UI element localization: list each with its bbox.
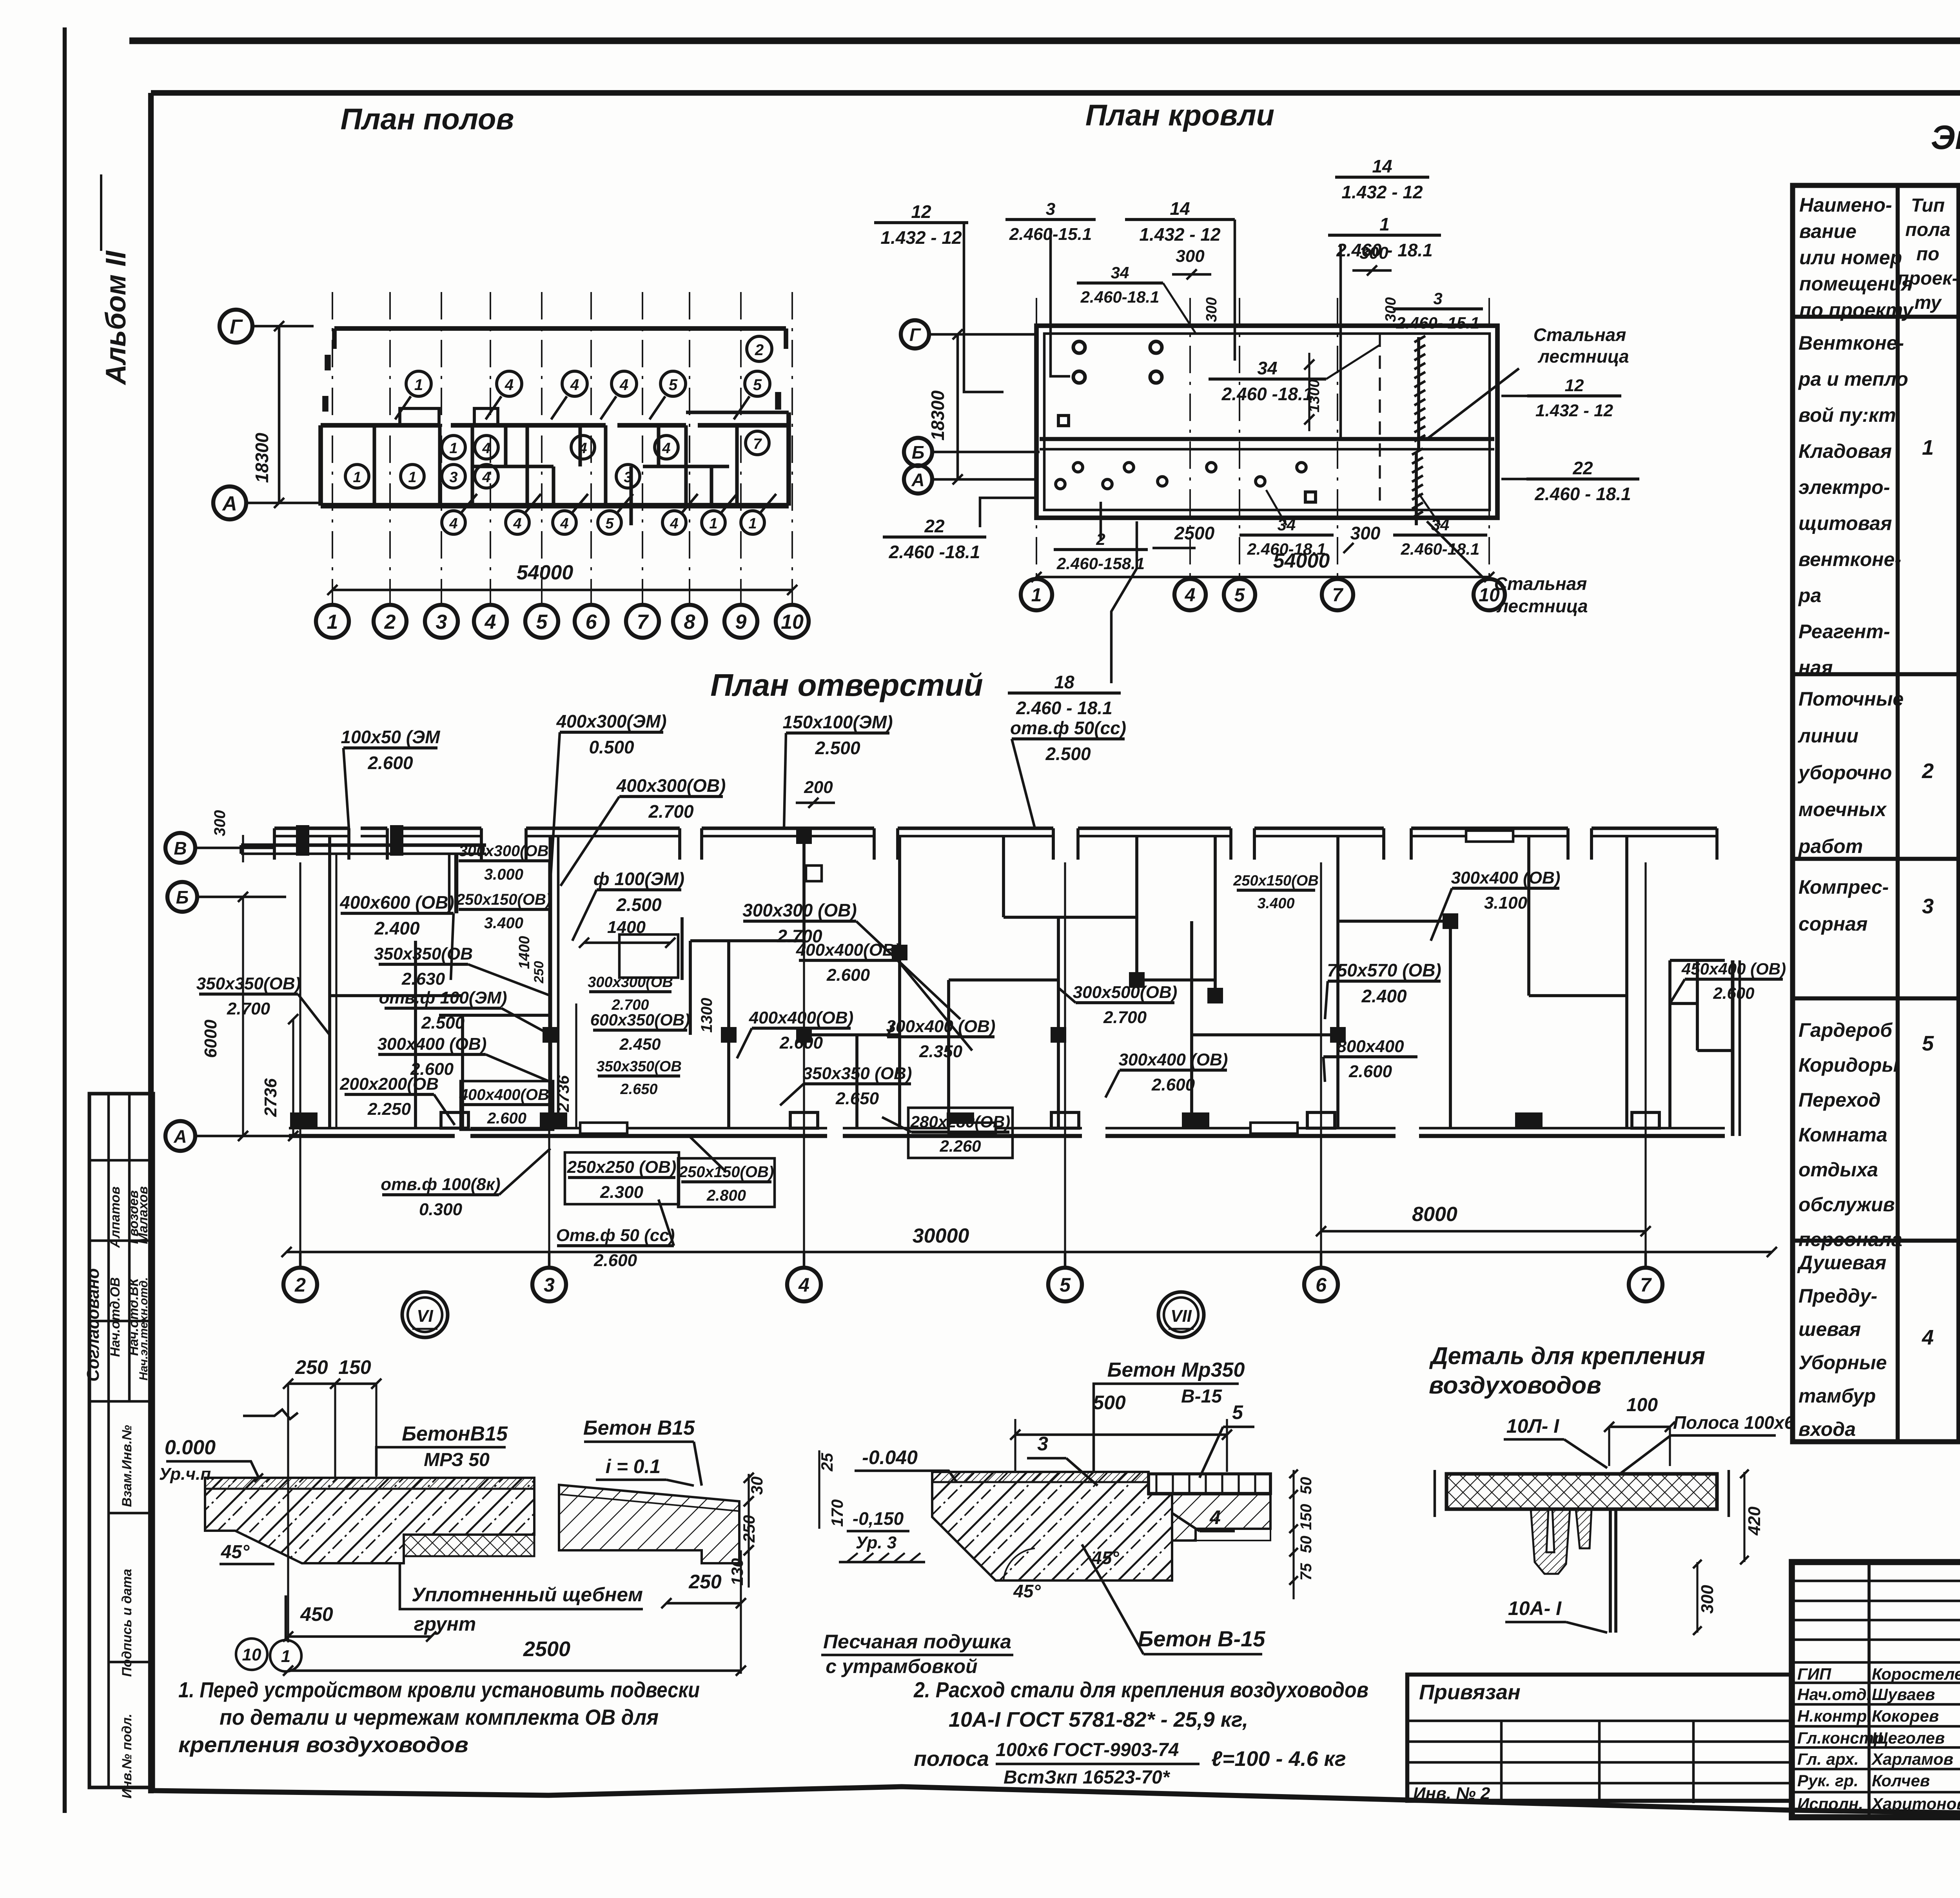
svg-text:отв.ф 50(сс): отв.ф 50(сс) <box>1010 718 1126 738</box>
plan polov band side walls <box>318 425 323 506</box>
svg-text:250: 250 <box>688 1571 722 1593</box>
svg-text:2.630: 2.630 <box>401 969 445 989</box>
svg-text:Нач.эл.техн.отд.: Нач.эл.техн.отд. <box>137 1277 150 1381</box>
svg-text:0.000: 0.000 <box>165 1436 216 1459</box>
plan left porch wall <box>241 843 486 847</box>
detailVII right slab <box>1172 1494 1270 1541</box>
svg-text:200: 200 <box>804 778 833 797</box>
svg-text:400х600 (ОВ): 400х600 (ОВ) <box>339 892 454 913</box>
svg-text:Уборные: Уборные <box>1798 1352 1887 1374</box>
drawing frame left border <box>148 93 154 1793</box>
detail10 gravel zone <box>404 1535 534 1556</box>
svg-text:Кокорев: Кокорев <box>1872 1707 1939 1725</box>
svg-text:300х500(ОВ): 300х500(ОВ) <box>1073 983 1178 1002</box>
svg-text:Исполн.: Исполн. <box>1797 1795 1863 1813</box>
roof axis circle B <box>904 438 932 466</box>
svg-text:ра и тепло: ра и тепло <box>1798 368 1908 390</box>
svg-text:1: 1 <box>408 469 416 486</box>
svg-text:Г: Г <box>230 316 243 338</box>
svg-text:Б: Б <box>176 887 189 907</box>
svg-text:1: 1 <box>414 376 423 394</box>
svg-text:22: 22 <box>1572 458 1593 478</box>
svg-text:450х400 (ОВ): 450х400 (ОВ) <box>1681 960 1786 978</box>
svg-text:2.450: 2.450 <box>619 1035 661 1053</box>
plan polov partitions <box>372 425 376 506</box>
svg-text:300х400 (ОВ): 300х400 (ОВ) <box>1451 868 1561 887</box>
detailVII top thin layer <box>932 1472 1149 1482</box>
svg-text:Шуваев: Шуваев <box>1872 1685 1935 1704</box>
svg-text:Экспликация полов: Экспликация полов <box>1931 119 1960 156</box>
svg-text:300: 300 <box>1698 1585 1717 1614</box>
plan top wall segments <box>274 826 349 830</box>
svg-text:щитовая: щитовая <box>1798 512 1892 534</box>
svg-text:2.460-18.1: 2.460-18.1 <box>1401 540 1480 558</box>
svg-text:5: 5 <box>536 611 548 633</box>
roof grid dash-dot lines <box>1036 298 1037 576</box>
svg-text:250х250 (ОВ): 250х250 (ОВ) <box>567 1158 677 1177</box>
duct detail dim 300 <box>1696 1562 1698 1633</box>
svg-text:2.460 - 18.1: 2.460 - 18.1 <box>1534 484 1631 504</box>
svg-text:3: 3 <box>1922 895 1934 918</box>
svg-text:Бетон В15: Бетон В15 <box>583 1417 695 1439</box>
svg-text:3: 3 <box>449 469 457 486</box>
svg-text:2.460-158.1: 2.460-158.1 <box>1056 554 1145 573</box>
svg-text:22: 22 <box>924 516 945 536</box>
svg-text:7: 7 <box>1640 1274 1652 1296</box>
svg-text:2.500: 2.500 <box>815 738 860 758</box>
roof axis circle G <box>901 320 929 348</box>
plan right end rooms <box>1731 960 1734 1136</box>
svg-text:Г: Г <box>909 325 921 345</box>
svg-text:14: 14 <box>1170 198 1190 219</box>
svg-text:4: 4 <box>578 440 587 457</box>
drawing frame bottom border <box>151 1787 1960 1824</box>
svg-text:ту: ту <box>1915 292 1942 313</box>
svg-text:Уплотненный щебнем: Уплотненный щебнем <box>412 1584 643 1606</box>
svg-text:200х200(ОВ: 200х200(ОВ <box>339 1074 439 1094</box>
svg-text:6: 6 <box>1316 1274 1327 1296</box>
svg-text:800х400: 800х400 <box>1337 1037 1404 1056</box>
svg-text:План кровли: План кровли <box>1085 99 1274 132</box>
svg-text:54000: 54000 <box>517 561 573 584</box>
svg-text:0.500: 0.500 <box>589 737 634 757</box>
svg-text:300х300 (ОВ): 300х300 (ОВ) <box>742 900 857 920</box>
roof axis circle A <box>904 465 932 494</box>
explication table outer box <box>1793 185 1960 1442</box>
svg-text:уборочно: уборочно <box>1797 762 1892 784</box>
detail10 node circles 10 and 1 <box>236 1639 267 1670</box>
svg-text:2: 2 <box>384 611 396 633</box>
svg-text:250х150(ОВ: 250х150(ОВ <box>1233 873 1319 889</box>
svg-text:с утрамбовкой: с утрамбовкой <box>826 1655 977 1677</box>
svg-text:А: А <box>221 492 237 515</box>
svg-text:2.460 - 18.1: 2.460 - 18.1 <box>1016 698 1112 718</box>
svg-text:Нач.отд.: Нач.отд. <box>1797 1685 1871 1704</box>
plan otverstiy axis circle V <box>165 833 195 863</box>
plan polov axis circle G <box>220 310 252 343</box>
svg-text:30: 30 <box>748 1477 766 1495</box>
svg-text:2. Расход стали для крепл: 2. Расход стали для крепления воздуховод… <box>913 1677 1368 1702</box>
plan otverstiy axis circle B <box>167 882 197 912</box>
plan bottom wall segments <box>289 1127 455 1130</box>
svg-text:18300: 18300 <box>927 390 948 441</box>
duct detail hangers <box>1531 1509 1570 1574</box>
svg-text:4: 4 <box>482 469 490 486</box>
plan duct shaft wall <box>454 854 458 913</box>
svg-text:1.432 - 12: 1.432 - 12 <box>880 227 962 248</box>
svg-text:2.460- 15.1: 2.460- 15.1 <box>1396 314 1480 332</box>
svg-text:Колчев: Колчев <box>1872 1771 1930 1790</box>
plan polov vertical dim 18300 <box>278 326 281 503</box>
plan polov band upper wall <box>321 423 439 428</box>
svg-text:2: 2 <box>755 341 764 359</box>
svg-text:10А-I ГОСТ 5781-82* - 25,9 к: 10А-I ГОСТ 5781-82* - 25,9 кг, <box>949 1708 1248 1731</box>
svg-text:Гл.констр: Гл.констр <box>1797 1729 1884 1747</box>
svg-text:вентконе-: вентконе- <box>1798 548 1901 570</box>
callout 280x280 <box>908 1108 1013 1158</box>
plan polov room number circles above band <box>406 371 431 396</box>
privyazan table box <box>1407 1675 1792 1801</box>
svg-text:2.400: 2.400 <box>374 918 420 938</box>
svg-text:ВстЗкп 16523-70*: ВстЗкп 16523-70* <box>1004 1767 1171 1788</box>
svg-text:300х400 (ОВ): 300х400 (ОВ) <box>377 1034 487 1054</box>
privyazan grid <box>1407 1720 1792 1722</box>
svg-text:5: 5 <box>1922 1032 1934 1055</box>
svg-text:1: 1 <box>1031 585 1042 606</box>
svg-text:1300: 1300 <box>698 998 715 1033</box>
svg-text:отв.ф 100(ЭМ): отв.ф 100(ЭМ) <box>379 988 507 1007</box>
plan polov grid axis dash-dot lines <box>332 292 333 605</box>
svg-text:План отверстий: План отверстий <box>710 668 983 702</box>
svg-text:Стальная: Стальная <box>1534 325 1626 345</box>
svg-text:7: 7 <box>637 611 649 633</box>
svg-text:Альбом II: Альбом II <box>100 250 132 385</box>
svg-text:18300: 18300 <box>252 433 272 483</box>
svg-text:отв.ф 100(8к): отв.ф 100(8к) <box>381 1175 500 1194</box>
detail10 break squiggle <box>243 1410 298 1419</box>
plan polov room number circles below band <box>442 511 465 534</box>
svg-text:300: 300 <box>1350 523 1381 543</box>
svg-text:или номер: или номер <box>1799 247 1902 269</box>
svg-text:2.500: 2.500 <box>616 895 662 915</box>
svg-text:Отв.ф 50 (сс): Отв.ф 50 (сс) <box>556 1226 675 1245</box>
svg-text:30000: 30000 <box>913 1225 969 1247</box>
svg-text:Душевая: Душевая <box>1797 1252 1886 1274</box>
svg-text:45°: 45° <box>1091 1548 1119 1568</box>
plan door openings ticks <box>580 1123 627 1134</box>
svg-text:1400: 1400 <box>516 936 533 969</box>
svg-text:300: 300 <box>211 810 229 836</box>
svg-text:Бетон В-15: Бетон В-15 <box>1138 1626 1266 1651</box>
svg-text:4: 4 <box>1922 1326 1934 1349</box>
svg-text:34: 34 <box>1111 263 1129 282</box>
svg-text:18: 18 <box>1054 672 1074 692</box>
svg-text:тамбур: тамбур <box>1798 1385 1876 1407</box>
svg-text:150: 150 <box>338 1356 371 1378</box>
roof outline inner <box>1044 334 1490 510</box>
svg-text:100х6 ГОСТ-9903-74: 100х6 ГОСТ-9903-74 <box>996 1740 1179 1760</box>
roof axis leaders <box>929 333 1036 336</box>
svg-text:2.600: 2.600 <box>826 965 870 985</box>
plan otverstiy axis circle A <box>165 1121 195 1151</box>
svg-text:250х150(ОВ): 250х150(ОВ) <box>456 891 551 908</box>
svg-text:-0,150: -0,150 <box>853 1508 904 1529</box>
svg-text:Рук. гр.: Рук. гр. <box>1797 1771 1858 1790</box>
svg-text:300: 300 <box>1359 243 1388 263</box>
approval strip box <box>89 1094 153 1787</box>
svg-text:Тип: Тип <box>1911 195 1945 216</box>
title block top thin rows <box>1792 1580 1960 1582</box>
detailVII bottom hatch band <box>1196 1529 1270 1541</box>
svg-text:Н.контр.: Н.контр. <box>1797 1707 1871 1725</box>
svg-text:3.100: 3.100 <box>1484 893 1528 913</box>
svg-text:Песчаная подушка: Песчаная подушка <box>823 1631 1011 1653</box>
title block name rows <box>1792 1682 1960 1684</box>
svg-text:моечных: моечных <box>1798 798 1887 820</box>
svg-text:персонала: персонала <box>1798 1228 1902 1250</box>
approval strip row lines <box>89 1159 153 1162</box>
explication table row lines <box>1793 315 1960 319</box>
svg-text:300: 300 <box>1203 297 1220 322</box>
svg-text:4: 4 <box>513 515 521 532</box>
svg-text:2.500: 2.500 <box>421 1013 465 1032</box>
svg-text:Деталь для крепления: Деталь для крепления <box>1429 1343 1705 1370</box>
svg-text:1: 1 <box>1379 214 1390 234</box>
svg-text:2.600: 2.600 <box>487 1110 526 1127</box>
svg-text:50: 50 <box>1298 1477 1315 1495</box>
svg-text:3: 3 <box>1433 289 1442 308</box>
svg-text:VI: VI <box>417 1306 433 1326</box>
svg-text:5: 5 <box>669 376 678 394</box>
callout 250x150 2.800 <box>678 1158 775 1207</box>
plan interior column squares <box>543 1027 558 1043</box>
plan polov band lower wall <box>321 503 789 508</box>
svg-text:9: 9 <box>735 611 747 633</box>
svg-text:2.700: 2.700 <box>227 999 270 1018</box>
svg-text:VII: VII <box>1171 1306 1192 1326</box>
svg-text:2.650: 2.650 <box>620 1081 657 1098</box>
svg-text:2.600: 2.600 <box>367 753 413 773</box>
svg-text:2.260: 2.260 <box>939 1137 981 1155</box>
svg-text:2.250: 2.250 <box>367 1100 411 1119</box>
explication table column lines <box>1896 185 1900 1442</box>
svg-text:входа: входа <box>1798 1418 1856 1440</box>
roof middle double wall <box>1040 437 1494 441</box>
svg-text:420: 420 <box>1745 1506 1764 1536</box>
svg-text:Нач.отд.ОВ: Нач.отд.ОВ <box>108 1277 123 1357</box>
svg-text:2736: 2736 <box>554 1075 572 1112</box>
svg-text:3: 3 <box>1037 1433 1048 1455</box>
svg-text:4: 4 <box>505 376 514 394</box>
node circle VI <box>402 1292 448 1337</box>
svg-text:350х350(ОВ: 350х350(ОВ <box>374 944 473 964</box>
svg-text:БетонВ15: БетонВ15 <box>402 1423 508 1445</box>
svg-text:Полоса 100х6: Полоса 100х6 <box>1673 1412 1795 1433</box>
svg-text:Гардероб: Гардероб <box>1798 1019 1893 1041</box>
plan polov top wall <box>334 326 786 331</box>
svg-text:пола: пола <box>1905 220 1950 240</box>
svg-text:вание: вание <box>1799 220 1857 242</box>
plan polov axis circle A <box>213 486 246 519</box>
svg-text:Стальная: Стальная <box>1494 573 1587 594</box>
svg-text:Привязан: Привязан <box>1419 1680 1521 1704</box>
svg-text:10А- I: 10А- I <box>1508 1597 1562 1619</box>
roof dashed partition <box>1379 334 1381 510</box>
svg-text:ная: ная <box>1798 657 1833 679</box>
svg-text:6000: 6000 <box>201 1020 220 1058</box>
svg-text:3.400: 3.400 <box>1257 895 1294 912</box>
detail10 slab top layer <box>205 1478 534 1489</box>
svg-text:Харламов: Харламов <box>1871 1750 1953 1768</box>
svg-text:2500: 2500 <box>1174 523 1215 543</box>
svg-text:Коридоры: Коридоры <box>1798 1054 1898 1076</box>
svg-text:ℓ=100 - 4.6 кг: ℓ=100 - 4.6 кг <box>1211 1747 1346 1771</box>
svg-text:2.350: 2.350 <box>919 1042 963 1061</box>
detailVII tile strip <box>1149 1474 1270 1493</box>
svg-text:4: 4 <box>449 515 457 532</box>
svg-text:25: 25 <box>818 1453 836 1472</box>
svg-text:250: 250 <box>295 1356 328 1378</box>
svg-text:3: 3 <box>1046 200 1055 219</box>
svg-text:помещения: помещения <box>1799 273 1913 295</box>
svg-text:4: 4 <box>1185 585 1196 606</box>
svg-text:350х350(ОВ: 350х350(ОВ <box>596 1058 682 1075</box>
svg-text:750х570 (ОВ): 750х570 (ОВ) <box>1327 960 1441 980</box>
svg-text:300х300(ОВ: 300х300(ОВ <box>459 842 548 860</box>
svg-text:2500: 2500 <box>523 1637 570 1661</box>
paper top edge <box>129 38 1960 44</box>
svg-text:Реагент-: Реагент- <box>1798 621 1890 642</box>
svg-text:3: 3 <box>624 469 632 486</box>
detail10 slab right polygon <box>559 1485 739 1563</box>
plan otverstiy axis leaders <box>195 847 274 849</box>
svg-text:Коростелев: Коростелев <box>1872 1665 1960 1683</box>
svg-text:1: 1 <box>709 515 717 532</box>
svg-text:4: 4 <box>670 515 678 532</box>
svg-text:ра: ра <box>1798 584 1821 606</box>
svg-text:В: В <box>174 838 187 858</box>
plan duct rectangle 1400 <box>619 934 678 978</box>
svg-text:400х300(ЭМ): 400х300(ЭМ) <box>556 711 666 731</box>
svg-text:100: 100 <box>1626 1395 1658 1415</box>
plan grid thin vertical lines <box>299 862 301 1266</box>
svg-text:5: 5 <box>1060 1274 1071 1296</box>
callout 400x400 boxed <box>461 1081 553 1130</box>
svg-text:45°: 45° <box>1013 1581 1041 1601</box>
svg-text:100х50 (ЭМ: 100х50 (ЭМ <box>341 727 441 747</box>
svg-text:лестница: лестница <box>1496 596 1588 616</box>
detail10 slab left polygon <box>205 1478 534 1563</box>
svg-text:2.500: 2.500 <box>1045 744 1091 764</box>
svg-text:крепления воздуховодов: крепления воздуховодов <box>178 1732 468 1757</box>
plan polov inner wall shelf <box>472 465 554 468</box>
svg-text:1. Перед устройством кровли: 1. Перед устройством кровли установить п… <box>178 1677 700 1702</box>
roof small squares <box>1305 492 1316 502</box>
plan polov room number circles inside band <box>442 435 465 459</box>
svg-text:400х400(ОВ): 400х400(ОВ) <box>749 1008 854 1027</box>
svg-text:8000: 8000 <box>1412 1203 1457 1226</box>
roof ladder hatch strips <box>1414 336 1425 342</box>
svg-text:2.800: 2.800 <box>706 1187 746 1204</box>
svg-text:3.400: 3.400 <box>484 915 523 932</box>
svg-text:А: А <box>911 470 924 490</box>
svg-text:электро-: электро- <box>1798 476 1890 498</box>
svg-text:12: 12 <box>911 201 931 222</box>
svg-text:1: 1 <box>327 611 338 633</box>
plan polov beam marks <box>325 355 331 370</box>
svg-text:ф 100(ЭМ): ф 100(ЭМ) <box>593 869 684 889</box>
svg-text:2: 2 <box>1922 759 1934 783</box>
svg-text:А: А <box>173 1126 187 1147</box>
svg-text:лестница: лестница <box>1537 346 1629 367</box>
svg-text:1: 1 <box>449 440 457 457</box>
svg-text:450: 450 <box>300 1603 333 1625</box>
svg-text:по: по <box>1916 244 1940 265</box>
svg-text:14: 14 <box>1372 156 1392 176</box>
svg-text:работ: работ <box>1798 835 1863 857</box>
svg-text:2.600: 2.600 <box>779 1033 823 1052</box>
svg-text:130: 130 <box>728 1558 746 1586</box>
svg-text:линии: линии <box>1798 725 1858 747</box>
svg-text:400х400(ОВ): 400х400(ОВ) <box>459 1086 554 1103</box>
svg-text:4: 4 <box>798 1274 809 1296</box>
roof vertical dim 18300 <box>956 334 959 479</box>
svg-text:2.300: 2.300 <box>600 1183 644 1202</box>
svg-text:2.460-18.1: 2.460-18.1 <box>1080 288 1160 306</box>
svg-text:45°: 45° <box>221 1542 250 1562</box>
plan horizontal partitions <box>330 994 463 997</box>
svg-text:Гл. арх.: Гл. арх. <box>1797 1750 1859 1768</box>
plan grid circles 2-7 <box>299 1252 302 1266</box>
svg-text:7: 7 <box>753 436 762 452</box>
svg-text:Вентконе-: Вентконе- <box>1798 332 1904 354</box>
svg-text:отдыха: отдыха <box>1798 1159 1878 1181</box>
svg-text:2.600: 2.600 <box>1348 1062 1392 1081</box>
svg-text:4: 4 <box>570 376 579 394</box>
svg-text:Взам.Инв.№: Взам.Инв.№ <box>120 1425 134 1507</box>
svg-text:5: 5 <box>1232 1401 1243 1423</box>
svg-text:4: 4 <box>1209 1506 1221 1528</box>
svg-text:Инв.№ подл.: Инв.№ подл. <box>120 1714 134 1799</box>
svg-text:10: 10 <box>781 611 804 633</box>
svg-text:Поточные: Поточные <box>1798 688 1904 710</box>
svg-text:300х400 (ОВ): 300х400 (ОВ) <box>1119 1050 1228 1069</box>
roof vent holes bottom band <box>1073 463 1083 472</box>
svg-text:Предду-: Предду- <box>1798 1285 1877 1307</box>
svg-text:шевая: шевая <box>1798 1318 1861 1340</box>
svg-text:400х300(ОВ): 400х300(ОВ) <box>616 775 726 796</box>
duct detail slab <box>1446 1474 1717 1509</box>
plan vertical partitions <box>335 854 337 1128</box>
svg-text:6: 6 <box>586 611 597 633</box>
svg-text:2: 2 <box>294 1274 306 1296</box>
plan small square under top wall <box>806 866 822 881</box>
svg-text:4: 4 <box>485 611 496 633</box>
svg-text:4: 4 <box>482 440 490 457</box>
svg-text:150: 150 <box>1298 1504 1315 1530</box>
svg-text:2736: 2736 <box>261 1078 280 1117</box>
svg-text:Б: Б <box>912 442 925 463</box>
svg-text:3: 3 <box>544 1274 555 1296</box>
svg-text:600х350(ОВ): 600х350(ОВ) <box>590 1011 690 1029</box>
svg-text:Переход: Переход <box>1798 1089 1880 1111</box>
svg-text:150х100(ЭМ): 150х100(ЭМ) <box>782 712 893 732</box>
plan polov room number circle 2 <box>747 336 772 361</box>
svg-text:Инв. № 2: Инв. № 2 <box>1413 1784 1490 1803</box>
svg-text:2.600: 2.600 <box>1713 984 1754 1002</box>
svg-text:4: 4 <box>560 515 568 532</box>
approval strip inner verticals <box>107 1094 110 1401</box>
